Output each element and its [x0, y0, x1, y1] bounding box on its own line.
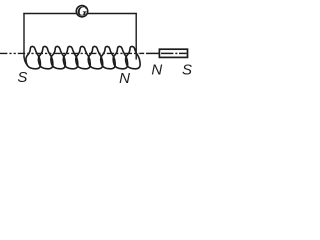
svg-text:S: S	[182, 61, 192, 78]
svg-text:S: S	[17, 69, 27, 86]
svg-text:N: N	[151, 61, 162, 78]
svg-text:G: G	[77, 3, 87, 18]
svg-text:N: N	[119, 70, 130, 87]
